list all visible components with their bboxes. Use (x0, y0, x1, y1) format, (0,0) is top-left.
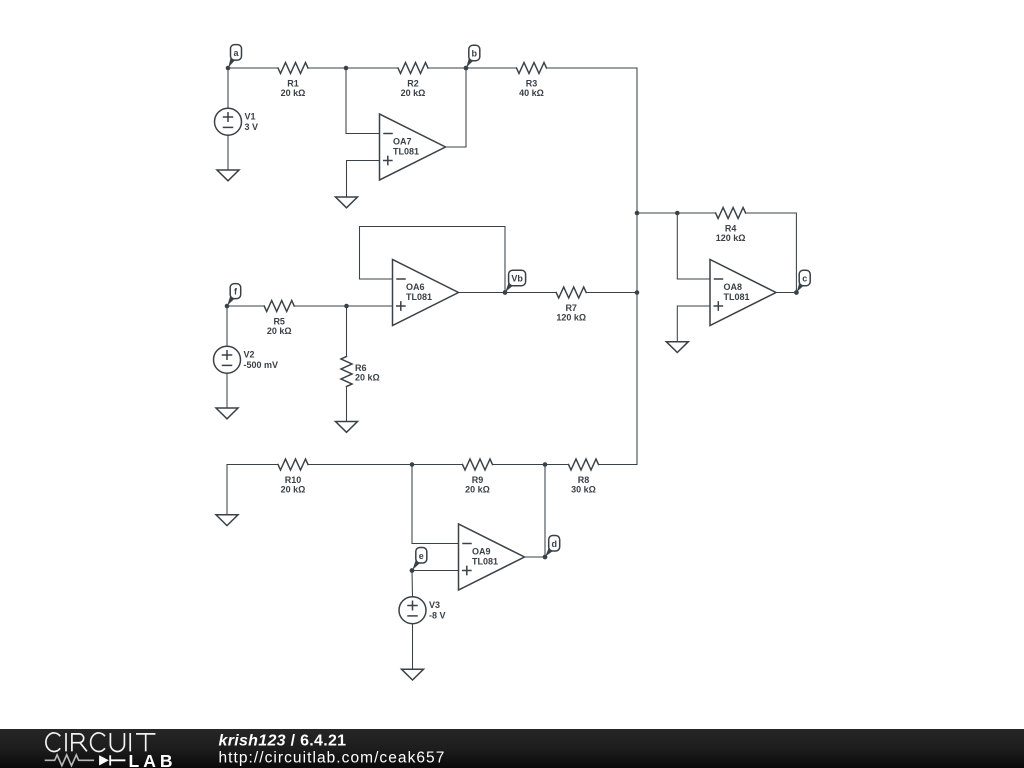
wire R1 to junction (308, 67, 398, 69)
wire node d up to R8/R9 junction (544, 465, 546, 558)
junction R7 at bus (635, 290, 640, 295)
wire R5 to junction (294, 305, 346, 307)
wire down to OA8 inverting input (677, 213, 710, 279)
ground below R6 (336, 422, 358, 433)
node b (466, 56, 474, 68)
resistor R7 (556, 287, 586, 298)
wire OA9 output to node d (525, 556, 546, 558)
svg-text:R1: R1 (287, 79, 299, 89)
svg-text:Vb: Vb (511, 273, 523, 283)
junction between R1 and R2 (344, 66, 349, 71)
svg-text:-8 V: -8 V (429, 611, 446, 621)
wire R9 to junction (493, 464, 546, 466)
wire junction to OA6 non-inverting input (347, 305, 393, 307)
wire node e to OA9 non-inverting input (412, 570, 459, 572)
junction node e (410, 568, 415, 573)
op-amp OA8 (710, 260, 776, 326)
junction node Vb (503, 290, 508, 295)
wire V3 to ground (412, 624, 414, 670)
wire node a to R1 (228, 67, 278, 69)
wire V2 to ground (226, 373, 228, 408)
svg-text:krish123 / 6.4.21: krish123 / 6.4.21 (219, 733, 347, 750)
op-amp OA6 (393, 260, 459, 326)
svg-text:120 kΩ: 120 kΩ (556, 313, 586, 323)
wire to R8 (545, 464, 569, 466)
wire OA7 output up to node b (446, 68, 467, 147)
resistor R3 (517, 63, 547, 74)
resistor R9 (463, 459, 493, 470)
wire right vertical bus (636, 68, 638, 465)
svg-text:20 kΩ: 20 kΩ (355, 373, 380, 383)
wire R3 to right bus corner (547, 67, 638, 69)
resistor R5 (264, 301, 294, 312)
node a (228, 55, 235, 67)
svg-text:30 kΩ: 30 kΩ (571, 485, 596, 495)
wire OA6 feedback loop: output up over to inverting input (360, 227, 506, 293)
node f (227, 294, 235, 306)
wire junction down to OA7 inverting input (346, 68, 380, 134)
junction node c (794, 290, 799, 295)
wire to R10 (227, 464, 278, 466)
resistor R10 (278, 459, 308, 470)
svg-text:20 kΩ: 20 kΩ (465, 485, 490, 495)
svg-text:TL081: TL081 (406, 292, 432, 302)
svg-text:R4: R4 (725, 224, 737, 234)
wire R6 to ground (346, 387, 348, 422)
wire V1 to ground (227, 135, 229, 170)
svg-text:R8: R8 (578, 475, 590, 485)
wire node f down to V2 (226, 306, 228, 346)
svg-text:20 kΩ: 20 kΩ (401, 88, 426, 98)
resistor R1 (278, 63, 308, 74)
wire bus to OA8 branch (637, 212, 677, 214)
node c (797, 281, 805, 292)
ground at OA7 non-inverting input (336, 197, 358, 208)
junction bus to R4 row (635, 211, 640, 216)
resistor R4 (716, 208, 746, 219)
svg-text:R10: R10 (285, 475, 302, 485)
voltage source V2 (214, 346, 241, 373)
svg-text:20 kΩ: 20 kΩ (281, 485, 306, 495)
resistor R6 (341, 357, 352, 387)
svg-text:V2: V2 (244, 350, 255, 360)
wire R4 down to node c (746, 213, 797, 293)
svg-text:TL081: TL081 (724, 292, 750, 302)
ground at OA8 non-inverting input (666, 342, 688, 353)
svg-text:20 kΩ: 20 kΩ (281, 88, 306, 98)
svg-text:LAB: LAB (129, 751, 177, 768)
svg-text:R2: R2 (407, 79, 419, 89)
node e (412, 558, 421, 570)
svg-text:120 kΩ: 120 kΩ (716, 233, 746, 243)
wire Vb to R7 (505, 292, 556, 294)
svg-text:V1: V1 (245, 112, 256, 122)
svg-text:d: d (551, 539, 557, 549)
wire node e down to V3 (411, 571, 414, 598)
svg-text:40 kΩ: 40 kΩ (519, 88, 544, 98)
junction OA8 inverting branch (675, 211, 680, 216)
wire to R9 (412, 464, 463, 466)
svg-text:R9: R9 (472, 475, 484, 485)
svg-text:TL081: TL081 (393, 147, 419, 157)
ground below V1 (217, 170, 239, 181)
svg-text:OA6: OA6 (406, 282, 425, 292)
op-amp OA9 (459, 524, 525, 590)
svg-text:c: c (802, 273, 807, 283)
svg-text:b: b (472, 48, 478, 58)
wire left end down to ground (226, 465, 228, 515)
ground below R10 left end (216, 515, 238, 526)
wire node f to R5 (227, 305, 264, 307)
junction node d (543, 555, 548, 560)
svg-text:TL081: TL081 (472, 557, 498, 567)
junction R5/R6/OA6 (344, 304, 349, 309)
wire OA7 non-inverting input (347, 161, 380, 198)
svg-text:R7: R7 (565, 303, 577, 313)
wire R2 to node b (428, 67, 517, 69)
junction OA9 output branch (543, 462, 548, 467)
CircuitLab logo text CIRCUIT (46, 733, 155, 752)
node d (545, 546, 554, 557)
wire to R4 (677, 212, 715, 214)
wire R10 to junction (308, 464, 412, 466)
wire junction down to OA9 inverting input (412, 465, 459, 544)
wire R7 to right bus (586, 292, 637, 294)
svg-text:V3: V3 (429, 600, 440, 610)
svg-text:OA7: OA7 (393, 137, 412, 147)
svg-text:20 kΩ: 20 kΩ (267, 326, 292, 336)
svg-text:R3: R3 (526, 79, 538, 89)
wire down to R6 (346, 306, 348, 357)
wire OA8 non-inverting input to ground (677, 306, 710, 342)
svg-text:e: e (419, 551, 424, 561)
resistor R2 (398, 63, 428, 74)
svg-text:OA9: OA9 (472, 547, 491, 557)
voltage source V3 (399, 597, 426, 624)
node Vb (505, 281, 514, 292)
ground below V2 (216, 408, 238, 419)
wire OA8 output to node c (776, 292, 796, 294)
svg-text:R6: R6 (355, 363, 367, 373)
svg-text:-500 mV: -500 mV (244, 360, 279, 370)
svg-text:R5: R5 (273, 317, 285, 327)
op-amp OA7 (380, 114, 446, 180)
junction OA9 inverting branch (410, 462, 415, 467)
resistor R8 (569, 459, 599, 470)
svg-text:3 V: 3 V (245, 122, 259, 132)
ground below V3 (402, 669, 424, 680)
junction node b (464, 66, 469, 71)
svg-text:http://circuitlab.com/ceak657: http://circuitlab.com/ceak657 (219, 750, 446, 767)
wire OA6 output to node Vb (459, 292, 506, 294)
wire R8 to right bus corner (599, 464, 638, 466)
CircuitLab logo resistor-diode glyph (45, 755, 94, 766)
wire node a down to V1 (227, 68, 229, 108)
svg-text:OA8: OA8 (724, 282, 743, 292)
voltage source V1 (215, 108, 242, 135)
